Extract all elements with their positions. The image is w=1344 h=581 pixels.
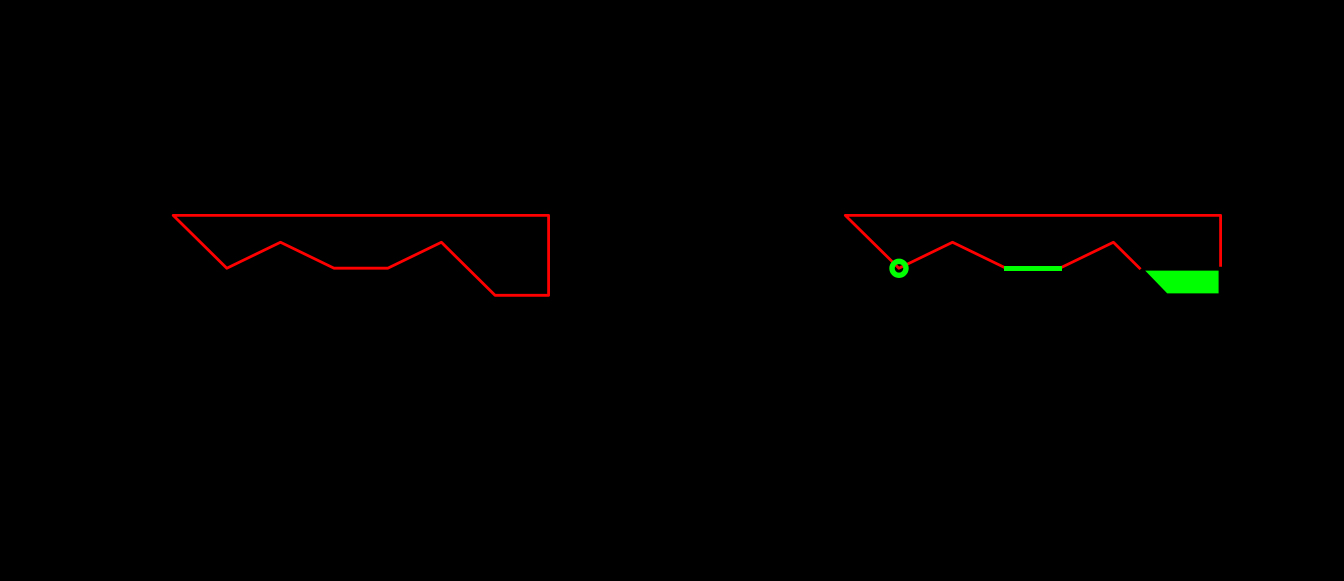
green contact ring marker <box>892 261 906 275</box>
green contact segment <box>1004 266 1062 271</box>
left profile polygon <box>173 215 548 295</box>
green filled region below threshold <box>1145 271 1218 294</box>
right profile polyline (above-threshold part, right edge + top + zigzag) <box>845 215 1220 268</box>
